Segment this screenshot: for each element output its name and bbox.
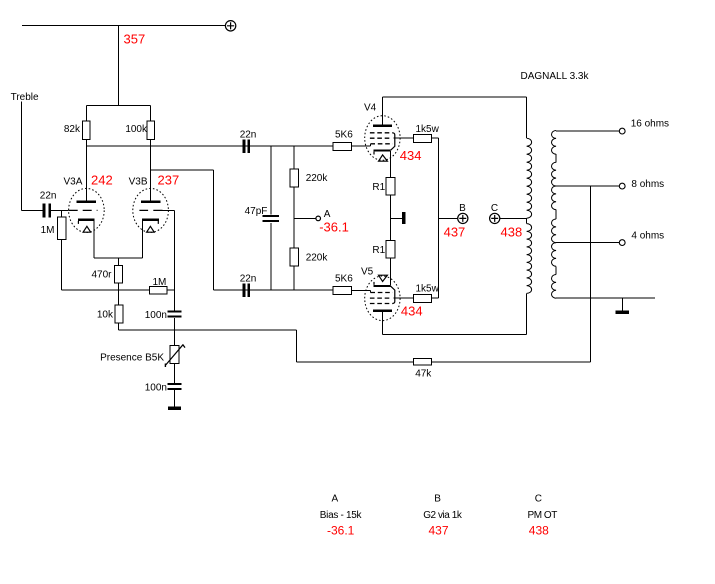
wire 82k bottom lead / V3A anode [85,139,87,201]
svg-text:1k5w: 1k5w [416,124,440,135]
resistor R1 upper [386,178,395,195]
wire V5 anode lead [381,312,383,335]
svg-text:-36.1: -36.1 [327,524,355,538]
wire V4 g2 to 1k5w [393,137,413,139]
svg-text:237: 237 [158,172,180,187]
wire V3B anode takeoff [151,170,214,290]
tube V5 heater triangle [379,275,388,281]
svg-text:V4: V4 [364,102,377,113]
capacitor 22n input [43,204,52,218]
svg-text:4 ohms: 4 ohms [631,230,664,241]
svg-text:82k: 82k [64,124,81,135]
wire 8 ohm tap [556,185,619,187]
resistor 5K6 lower [333,286,351,294]
svg-text:B: B [434,494,441,505]
wire R1 lower to V5 cathode [389,258,391,285]
tube V4 grid2 dashed [370,137,390,139]
wire B takeoff [439,217,458,219]
node B terminal (circled plus) [458,213,468,223]
svg-text:242: 242 [91,172,113,187]
tube V3A heater triangle [83,226,91,232]
resistor 1k5w lower [413,294,431,302]
svg-text:100n: 100n [145,310,167,321]
tube V3B envelope [133,188,169,232]
svg-text:47k: 47k [415,369,432,380]
wire screen B rail vertical [438,138,440,298]
svg-text:47pF: 47pF [245,206,268,217]
svg-text:16 ohms: 16 ohms [631,118,669,129]
wire V4 anode lead [381,97,383,125]
tube V4 grid1 dashed [370,143,392,145]
wire between R1s [389,195,391,241]
svg-text:5K6: 5K6 [335,130,353,141]
ground terminal bottom-left [168,407,181,411]
tube V5 grid1 dashed [370,292,392,294]
capacitor 22n coupling top [243,139,246,152]
wire 5K6 upper to V4 grid [352,144,371,146]
wire 5K6 lower to V5 grid [352,290,371,292]
wire 10k top lead [118,290,120,305]
resistor 220k upper [290,169,298,187]
tube V4 heater triangle [379,155,388,161]
svg-text:R1: R1 [372,182,385,193]
ground terminal secondary [616,298,630,314]
tube V3B cathode [142,219,159,258]
wire phase splitter bottom run [214,289,334,291]
wire primary bottom to V5 anode [382,293,526,334]
wire 82k top lead [85,106,87,122]
capacitor 47pF [263,215,279,217]
resistor 470r [114,266,122,284]
svg-text:100k: 100k [125,124,148,135]
svg-text:-36.1: -36.1 [319,220,349,235]
wire 220k mid [293,187,295,248]
transformer primary winding upper [527,138,532,218]
wire 100k top lead [150,106,152,122]
resistor 220k lower [290,248,298,266]
tube V4 anode plate [373,124,392,126]
svg-text:22n: 22n [40,190,57,201]
wire primary centre tap join [526,218,528,223]
tube V5 grid3 dashed with cathode hook [370,286,395,303]
tube V3A anode plate [77,201,96,203]
svg-text:10k: 10k [97,310,114,321]
capacitor 100n upper [168,311,182,313]
resistor 47k NFB [414,358,432,365]
svg-text:470r: 470r [91,270,112,281]
tube V4 envelope [365,116,400,161]
svg-text:8 ohms: 8 ohms [631,179,664,190]
wire anode-resistor rail [86,105,150,107]
node C terminal (circled plus) [490,213,500,223]
wire 1M bottom lead to NFB line [62,240,119,291]
HT supply terminal (circled plus) [225,21,235,31]
svg-text:22n: 22n [240,274,257,285]
wire C to transformer centre tap [500,217,527,219]
svg-text:PM OT: PM OT [528,510,558,521]
tube V3B anode plate [141,201,160,203]
svg-text:V3A: V3A [64,177,83,188]
wire 10k bottom lead + NFB run [119,323,297,330]
wire HT rail top [22,25,225,27]
wire V4 anode to primary top [382,97,526,138]
wire 1k5w upper to B rail [432,137,439,139]
node A takeoff wire [294,217,316,219]
svg-text:Bias - 15k: Bias - 15k [320,510,363,521]
wire 4 ohm tap [556,242,619,244]
wire NFB node horizontal [119,289,150,291]
svg-text:B: B [459,203,466,214]
svg-text:V3B: V3B [129,177,148,188]
svg-text:A: A [331,494,338,505]
tube V3A cathode [78,219,95,258]
wire 100n to presence pot [174,318,176,345]
tube V3B grid (dashed) with takeoff right [139,209,174,211]
svg-text:R1: R1 [372,245,385,256]
svg-text:1M: 1M [41,225,55,236]
svg-text:DAGNALL 3.3k: DAGNALL 3.3k [521,71,590,82]
tube V4 grid3 dashed with cathode hook [370,133,395,151]
svg-text:1M: 1M [153,277,167,288]
wire 100n lower to ground [174,390,176,407]
svg-text:100n: 100n [145,382,167,393]
tube V5 envelope [365,276,400,321]
svg-text:434: 434 [400,148,422,163]
wire grid node down [174,290,176,310]
wire 1M top lead [61,210,63,217]
resistor R1 lower [386,241,395,259]
svg-text:G2 via 1k: G2 via 1k [423,510,463,521]
tube V3B heater triangle [147,226,155,232]
wire anode V3A to phase splitter top [86,145,333,147]
svg-text:437: 437 [429,524,449,538]
svg-text:220k: 220k [306,252,329,263]
resistor 5K6 upper [333,143,351,151]
svg-text:434: 434 [401,304,423,319]
transformer secondary winding [552,131,557,299]
node 8 ohm terminal [619,183,625,189]
svg-text:22n: 22n [240,130,257,141]
wire NFB drop from splitter [296,330,413,362]
svg-text:Presence B5K: Presence B5K [100,352,164,363]
svg-text:357: 357 [124,32,146,47]
resistor 1M tail [149,286,167,294]
wire 16 ohm tap [556,130,619,132]
svg-text:Treble: Treble [11,92,39,103]
wire cap to V3A grid [51,209,68,211]
svg-text:V5: V5 [361,267,374,278]
wire HT drop [118,26,120,106]
tube V5 cathode [373,258,390,287]
resistor 1M grid [57,217,66,239]
potentiometer Presence B5K [165,344,185,367]
svg-text:438: 438 [501,225,523,240]
wire secondary common [556,297,655,299]
svg-text:C: C [535,494,542,505]
svg-text:220k: 220k [306,173,329,184]
wire 1k5w lower to B rail [432,297,439,299]
wire V5 g2 to 1k5w [393,297,413,299]
wire 47k to 8 ohm tap [431,186,590,362]
tube V3A envelope [69,188,105,232]
node 16 ohm terminal [619,128,625,134]
resistor 100k [147,121,155,139]
svg-text:1k5w: 1k5w [416,284,440,295]
bias tap stub [390,212,405,224]
wire V3B grid drop [174,210,176,290]
tube V5 grid2 dashed [370,297,390,299]
wire pot to lower 100n [174,363,176,383]
transformer primary winding lower [527,224,532,294]
wire treble input [22,102,43,211]
wire 100k bottom lead / V3B anode [150,139,152,201]
tube V4 cathode [373,149,390,177]
wire 470r bottom lead [118,283,120,290]
wire 1M tail to grid node [167,289,175,291]
wire cathodes join [94,258,142,266]
node A terminal circle [316,216,321,221]
wire 220k branch top [293,146,295,169]
resistor 1k5w upper [413,135,431,143]
svg-text:5K6: 5K6 [335,274,353,285]
svg-text:C: C [491,203,498,214]
svg-text:A: A [324,209,331,220]
resistor 10k [115,305,123,323]
svg-text:438: 438 [529,524,549,538]
svg-text:437: 437 [444,225,466,240]
tube V5 anode plate [373,310,392,312]
wire 47pF branch [270,146,272,290]
capacitor 100n lower [168,383,182,385]
node 4 ohm terminal [619,240,625,246]
resistor 82k [83,121,91,139]
capacitor 22n coupling bottom [243,284,246,297]
tube V3A grid (dashed) [69,209,98,211]
wire 220k branch bottom [293,266,295,290]
